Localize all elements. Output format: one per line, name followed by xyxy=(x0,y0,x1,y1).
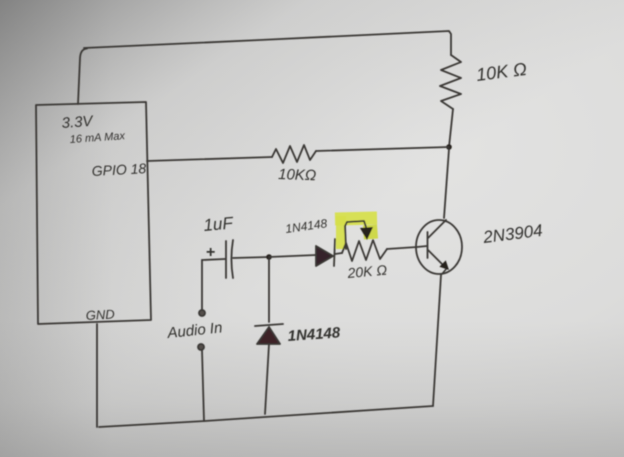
capacitor C1 1uF plus lead wire xyxy=(202,241,226,278)
label GPIO 18 (pin) xyxy=(91,160,146,179)
wire ground rail (bottom) xyxy=(99,406,433,427)
wire R2 to node A xyxy=(316,147,449,151)
label 1N4148 (D2) xyxy=(287,324,341,345)
wire node A to Q1 collector xyxy=(444,149,449,218)
module U1 3.3V GPIO18 GND block xyxy=(36,102,151,324)
label 10K Ω (R1) xyxy=(475,59,528,85)
wire C1 to audio-in terminal xyxy=(201,260,203,310)
wire C1 to node B xyxy=(233,257,269,258)
label 2N3904 (Q1) xyxy=(481,221,543,247)
highlighter mark on potentiometer wiper xyxy=(335,216,377,249)
wire node B to D2 xyxy=(268,259,270,322)
wire top rail xyxy=(84,31,451,55)
label 1uF (C1) xyxy=(203,213,235,235)
label 3.3V xyxy=(61,113,95,132)
label 16 mA Max xyxy=(69,130,125,146)
diode D1 1N4148 (horizontal) xyxy=(316,239,335,266)
label 1N4148 (D1) xyxy=(284,216,328,236)
wire R3 to Q1 base xyxy=(387,246,427,249)
label + polarity xyxy=(206,244,215,261)
wire audio-in lower terminal to ground rail xyxy=(202,350,204,421)
wire D2 to ground rail xyxy=(265,344,269,414)
wire node B to D1 anode xyxy=(269,255,316,257)
svg-text:GND: GND xyxy=(85,307,115,323)
potentiometer R3 wiper arrow xyxy=(345,221,373,249)
resistor R2 10K (middle, horizontal) xyxy=(272,145,316,163)
svg-text:1uF: 1uF xyxy=(203,213,235,235)
wire R1 to node A xyxy=(449,109,453,147)
svg-text:3.3V: 3.3V xyxy=(61,113,95,132)
resistor R1 10K (top right, vertical) xyxy=(440,55,461,109)
svg-text:10KΩ: 10KΩ xyxy=(278,166,317,184)
wire D1 cathode to R3 xyxy=(335,253,342,254)
audio in terminal (upper) xyxy=(199,310,205,316)
node B junction dot xyxy=(266,254,272,260)
svg-text:GPIO 18: GPIO 18 xyxy=(91,160,146,179)
capacitor C1 right plate xyxy=(232,240,234,278)
label GND (pin) xyxy=(85,307,115,323)
diode D2 1N4148 (vertical, cathode bar) xyxy=(255,324,283,326)
wire GND pin to ground rail xyxy=(96,324,98,427)
label Audio In xyxy=(166,319,224,342)
svg-text:+: + xyxy=(206,244,215,261)
transistor Q1 2N3904 xyxy=(416,220,462,274)
wire Q1 emitter to ground rail xyxy=(433,275,441,406)
potentiometer R3 20K track xyxy=(342,240,387,261)
wire GPIO18 to R2 xyxy=(147,157,272,161)
label 10KΩ (R2) xyxy=(278,166,317,184)
node A junction dot xyxy=(446,144,452,150)
diode D2 1N4148 triangle xyxy=(257,327,280,344)
audio in terminal (lower) xyxy=(198,344,204,350)
label 20K Ω (R3) xyxy=(346,262,388,281)
wire 3.3V to top rail xyxy=(78,49,87,105)
